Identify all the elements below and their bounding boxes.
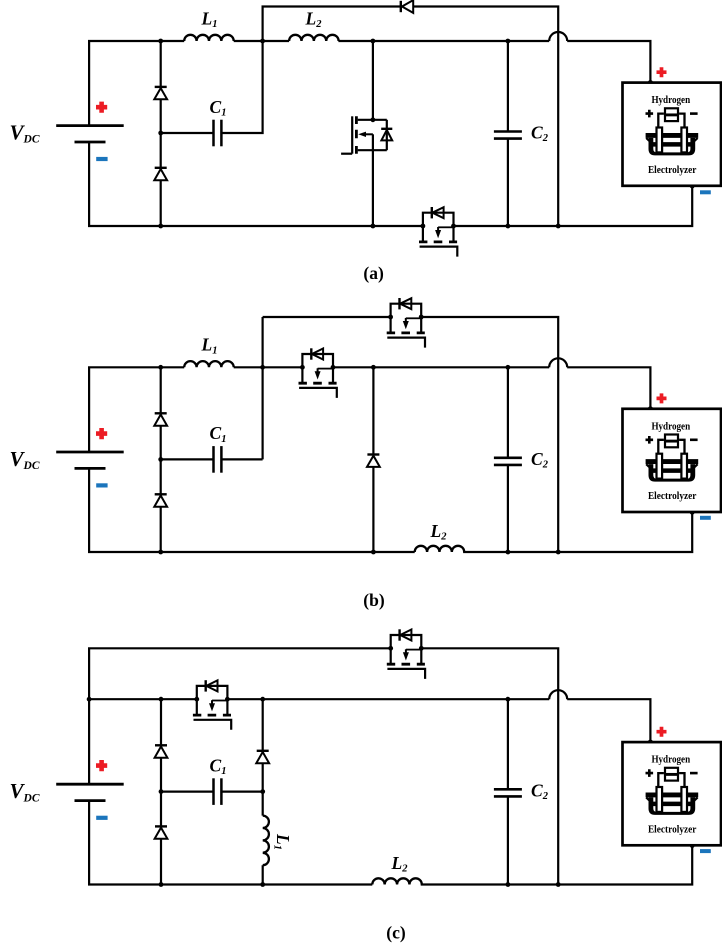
junction: bottom rail at right vertical (c) (556, 882, 561, 887)
wire: battery positive up to top bypass (c) (89, 648, 391, 784)
junction: top rail at C2 (a) (506, 39, 511, 44)
wire: Q1 source to bottom rail (a) (372, 150, 374, 226)
wire hop over vertical (b) (549, 358, 567, 367)
label L1 rotated (c) (271, 833, 293, 850)
wire: C1 branch (a) (161, 41, 263, 133)
wire: battery positive to top rail (a) (89, 41, 184, 126)
wire: C1 branch (b) (161, 458, 263, 460)
electrolyzer load box (a) (623, 83, 722, 186)
electrolyzer plus sign (a) (657, 67, 667, 77)
junction: top rail at C2 (b) (506, 365, 511, 370)
junction: electrolyzer negative terminal (c) (690, 843, 695, 848)
svg-text:C2: C2 (531, 781, 549, 803)
electrolyzer minus sign (b) (700, 516, 711, 520)
wire: capacitor C2 branch (c) (507, 699, 509, 884)
junction: bottom rail at L1 branch (c) (260, 882, 265, 887)
mosfet Q2 horizontal on bottom rail (a) (419, 207, 457, 257)
junction: top rail at Q1 drain (a) (371, 39, 376, 44)
svg-text:(c): (c) (386, 923, 406, 943)
wire: battery positive to top rail (b) (89, 367, 184, 452)
junction: bottom rail at diode branch (a) (158, 224, 163, 229)
mosfet Q2 horizontal on second wire (c) (193, 680, 231, 730)
wire: top rail L1 to mosfet Q1 (b) (234, 366, 303, 368)
wire: top rail hop to electrolyzer positive (a) (567, 41, 650, 83)
junction: top rail at diode branch (b) (158, 365, 163, 370)
svg-text:VDC: VDC (10, 121, 40, 146)
capacitor C2 (b) (494, 458, 522, 465)
wire: capacitor C2 branch (a) (507, 41, 509, 226)
diode D2 (b) (154, 494, 167, 506)
junction: bottom rail at right vertical (b) (556, 550, 561, 555)
wire: diode D3 and inductor L1 branch (c) (262, 699, 264, 884)
electrolyzer load box (b) (623, 409, 722, 512)
junction: electrolyzer positive terminal (a) (648, 80, 653, 85)
diode D3 (c) (256, 751, 269, 763)
svg-text:C2: C2 (531, 449, 549, 471)
inductor L2 (c) (372, 878, 422, 884)
wire: bottom rail battery to L2 (b) (89, 468, 415, 552)
junction: bottom rail at C2 (a) (506, 224, 511, 229)
svg-text:L2: L2 (430, 521, 448, 543)
svg-text:C1: C1 (210, 97, 227, 119)
svg-text:C1: C1 (210, 423, 227, 445)
wire hop over vertical (c) (549, 690, 567, 699)
junction: bottom rail at diode branch (b) (158, 550, 163, 555)
wire: top rail L1 to L2 (a) (234, 40, 289, 42)
battery minus terminal (c) (96, 816, 107, 820)
wire: second wire Q2 to hop (c) (227, 698, 549, 700)
inductor L1 (a) (184, 35, 234, 41)
battery VDC (a) (56, 126, 124, 142)
capacitor C1 (b) (214, 446, 222, 473)
wire: bypass diode to right vertical down to bottom rail (a) (414, 7, 559, 227)
wire: bottom rail battery to L2 (c) (89, 801, 372, 885)
junction: diode branch at C1 wire (a) (158, 131, 163, 136)
junction: top rail at diode branch (a) (158, 39, 163, 44)
battery VDC (c) (56, 784, 124, 800)
junction: bottom rail at C2 (c) (506, 882, 511, 887)
wire: bypass from node A up and right to diode D3 (a) (263, 7, 401, 42)
svg-text:Hydrogen: Hydrogen (651, 95, 690, 106)
junction: electrolyzer positive terminal (c) (648, 740, 653, 745)
wire: diode branch D1 D2 (c) (160, 699, 162, 884)
svg-text:L2: L2 (391, 853, 409, 875)
svg-text:VDC: VDC (10, 779, 40, 804)
wire: second wire left segment to mosfet Q2 (c) (89, 698, 197, 700)
wire: diode branch D1 D2 (b) (160, 367, 162, 552)
junction: diode branch at C1 wire (c) (159, 789, 164, 794)
wire: bottom rail L2 to electrolyzer negative (b) (463, 512, 692, 552)
capacitor C1 (a) (214, 120, 222, 147)
wire: bottom rail Q2 to electrolyzer negative (a) (454, 186, 693, 226)
wire: capacitor C2 branch (b) (507, 367, 509, 552)
capacitor C1 (c) (214, 778, 222, 805)
junction: second wire at D3 branch (c) (260, 697, 265, 702)
wire: diode D3 branch (b) (372, 367, 374, 552)
wire: bottom rail L2 to electrolyzer negative (c) (421, 845, 693, 884)
junction: bottom rail at diode branch (c) (159, 882, 164, 887)
inductor L2 (a) (289, 35, 339, 41)
wire: cross vertical upper-branch to C1 (b) (262, 317, 264, 459)
wire: bottom rail left of Q2 (a) (89, 142, 423, 226)
svg-text:Electrolyzer: Electrolyzer (648, 165, 697, 176)
diode D1 (b) (154, 413, 167, 425)
wire: top rail hop to electrolyzer positive (b) (567, 367, 650, 409)
svg-text:C1: C1 (210, 755, 227, 777)
diode D2 (a) (154, 168, 167, 180)
junction: bottom rail at C2 (b) (506, 550, 511, 555)
wire hop over bypass vertical (a) (549, 32, 567, 41)
diode D3 (b) (367, 455, 380, 467)
svg-text:L1: L1 (201, 335, 218, 357)
svg-text:(b): (b) (363, 590, 385, 610)
wire: top rail Q1 to hop (b) (333, 366, 549, 368)
junction: electrolyzer negative terminal (b) (690, 509, 695, 514)
wire: upper branch from node A to mosfet Q2 (b) (263, 316, 391, 318)
diode D2 (c) (155, 826, 168, 838)
electrolyzer plus sign (b) (657, 393, 667, 403)
wire: second wire hop to electrolyzer positive (c) (567, 699, 650, 742)
junction: electrolyzer positive terminal (b) (648, 406, 653, 411)
svg-text:L2: L2 (305, 8, 323, 30)
svg-text:Electrolyzer: Electrolyzer (648, 824, 697, 835)
wire: diode branch D1 D2 (a) (160, 41, 162, 226)
wire: top rail L2 to hop (a) (338, 40, 549, 42)
battery VDC (b) (56, 452, 124, 468)
mosfet Q1 vertical (a) (341, 116, 392, 153)
mosfet Q1 horizontal on top bypass (c) (387, 629, 425, 679)
diode D3 on bypass (a) (401, 0, 413, 13)
battery plus terminal (a) (96, 102, 107, 113)
svg-text:Hydrogen: Hydrogen (651, 755, 690, 766)
svg-text:L1: L1 (201, 9, 218, 31)
junction: diode branch at C1 wire (b) (158, 457, 163, 462)
junction: second wire at C2 (c) (506, 697, 511, 702)
wire: upper branch Q2 to right vertical down to bottom rail (b) (421, 317, 558, 552)
capacitor C2 (c) (494, 789, 522, 796)
electrolyzer minus sign (c) (700, 849, 711, 853)
junction: top rail at cross vertical (b) (260, 365, 265, 370)
junction: bottom rail at bypass vertical (a) (556, 224, 561, 229)
svg-text:(a): (a) (363, 263, 384, 283)
mosfet Q1 horizontal on top rail (b) (299, 348, 337, 398)
wire: top bypass Q1 to right vertical down to bottom rail (c) (421, 648, 558, 884)
svg-text:C2: C2 (531, 123, 549, 145)
junction: left vertical at second wire (c) (87, 697, 92, 702)
battery minus terminal (b) (96, 483, 107, 487)
electrolyzer load box (c) (623, 742, 722, 845)
junction: bottom rail at D3 branch (b) (371, 550, 376, 555)
battery minus terminal (a) (96, 157, 107, 161)
junction: top rail at diode branch D3 (b) (371, 365, 376, 370)
junction: top rail at bypass vertical (a) (260, 39, 265, 44)
junction: electrolyzer negative terminal (a) (690, 183, 695, 188)
battery plus terminal (b) (96, 428, 107, 439)
mosfet Q2 horizontal on upper branch (b) (387, 298, 425, 348)
svg-text:Hydrogen: Hydrogen (651, 421, 690, 432)
electrolyzer plus sign (c) (657, 727, 667, 737)
capacitor C2 (a) (494, 132, 522, 139)
inductor L2 (b) (415, 546, 465, 552)
junction: D3 branch at C1 wire (c) (260, 789, 265, 794)
battery plus terminal (c) (96, 760, 107, 771)
wire: C1 branch (c) (161, 790, 263, 792)
diode D1 (a) (154, 87, 167, 99)
inductor L1 vertical (c) (263, 816, 269, 866)
diode D1 (c) (155, 745, 168, 757)
svg-text:VDC: VDC (10, 447, 40, 472)
electrolyzer minus sign (a) (700, 190, 711, 194)
junction: bottom rail at Q1 source (a) (371, 224, 376, 229)
inductor L1 (b) (184, 361, 234, 367)
svg-text:Electrolyzer: Electrolyzer (648, 491, 697, 502)
svg-text:L1: L1 (271, 833, 293, 850)
wire: MOSFET Q1 drain from top rail (a) (372, 41, 374, 120)
junction: second wire at diode branch (c) (159, 697, 164, 702)
